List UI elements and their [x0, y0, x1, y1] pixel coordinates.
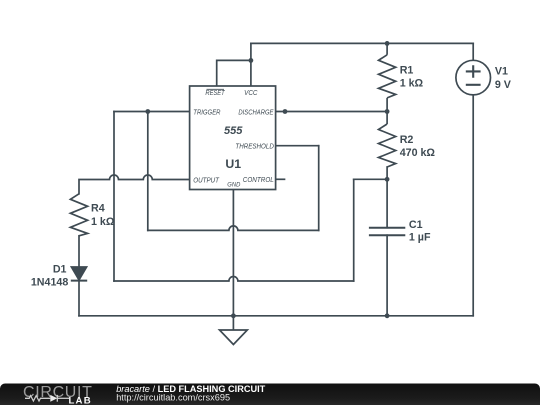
wire V1 top lead: [472, 43, 474, 60]
junction dot R1/R2/discharge node: [385, 109, 390, 114]
resistor R2: [379, 112, 396, 168]
footer bar: [0, 384, 540, 405]
wire D1 cathode lead: [78, 281, 80, 316]
svg-text:http://circuitlab.com/crsx695: http://circuitlab.com/crsx695: [116, 392, 230, 402]
wire top rail: [251, 42, 473, 44]
svg-text:LAB: LAB: [69, 395, 92, 405]
wire VCC lead: [250, 43, 252, 86]
svg-text:R2: R2: [400, 134, 414, 146]
wire vertical x=147.8: [147, 112, 149, 231]
junction dot R2/C1 node: [385, 177, 390, 182]
wire TRIGGER: [114, 111, 190, 113]
wire R4 bottom lead to D1: [78, 236, 80, 267]
voltage source V1: [456, 60, 491, 95]
resistor R4: [70, 194, 87, 236]
wire C1 top lead: [386, 179, 388, 227]
wire DISCHARGE to R1/R2 node: [276, 111, 388, 113]
junction dot DISCHARGE pin: [283, 109, 288, 114]
svg-text:555: 555: [224, 125, 243, 137]
wire CONTROL stub: [276, 178, 285, 180]
wire GND pin lead: [232, 190, 234, 316]
svg-text:C1: C1: [409, 219, 423, 231]
svg-text:9 V: 9 V: [495, 79, 512, 91]
wire THRESHOLD: [276, 145, 319, 147]
op-amp/timer IC U1 555 body: [190, 86, 276, 190]
svg-text:TRIGGER: TRIGGER: [193, 110, 220, 117]
junction dot R1 top on rail: [385, 41, 390, 46]
svg-text:U1: U1: [225, 157, 241, 171]
wire C1 bottom lead: [386, 235, 388, 316]
svg-text:1 µF: 1 µF: [409, 232, 431, 244]
wire vertical x=353.7: [353, 179, 355, 281]
svg-text:GND: GND: [227, 181, 240, 188]
junction dot ground rail / C1: [385, 313, 390, 318]
junction dot ground rail / GND: [231, 313, 236, 318]
wire horizontal y=230.4 with hop over GND line: [148, 226, 319, 230]
svg-text:RESET: RESET: [205, 90, 225, 97]
wire left vertical x=114: [113, 112, 115, 282]
wire horizontal y=281 with hop over GND line: [114, 277, 354, 282]
svg-text:D1: D1: [53, 264, 67, 276]
diode D1: [71, 267, 87, 281]
wire node to R2/C1 junction: [354, 178, 387, 180]
svg-text:1 kΩ: 1 kΩ: [91, 216, 115, 228]
resistor R1: [379, 43, 396, 111]
svg-text:CONTROL: CONTROL: [243, 177, 274, 184]
svg-text:R4: R4: [91, 203, 105, 215]
svg-text:THRESHOLD: THRESHOLD: [235, 143, 274, 150]
svg-text:470 kΩ: 470 kΩ: [400, 147, 436, 159]
capacitor C1: [369, 228, 405, 236]
wire vertical x=318.7: [318, 146, 320, 231]
ground: [220, 316, 248, 345]
svg-text:R1: R1: [400, 64, 414, 76]
pin label RESET with overline: [205, 89, 225, 97]
svg-text:V1: V1: [495, 65, 508, 77]
svg-text:1 kΩ: 1 kΩ: [400, 78, 424, 90]
junction dot trigger branch: [145, 109, 150, 114]
svg-text:1N4148: 1N4148: [31, 277, 68, 289]
wire R2 bottom lead: [386, 167, 388, 179]
svg-text:DISCHARGE: DISCHARGE: [238, 110, 273, 117]
CircuitLab logo resistor-diode squiggle: [25, 395, 69, 402]
wire V1 bottom lead / right rail: [472, 95, 474, 316]
junction dot RESET/VCC: [249, 58, 254, 63]
wire bottom ground rail: [79, 315, 473, 317]
wire OUTPUT with hops over x=147.8 and x=114: [79, 175, 190, 194]
wire RESET lead: [217, 60, 251, 86]
svg-text:OUTPUT: OUTPUT: [193, 178, 219, 185]
svg-text:VCC: VCC: [244, 90, 258, 97]
